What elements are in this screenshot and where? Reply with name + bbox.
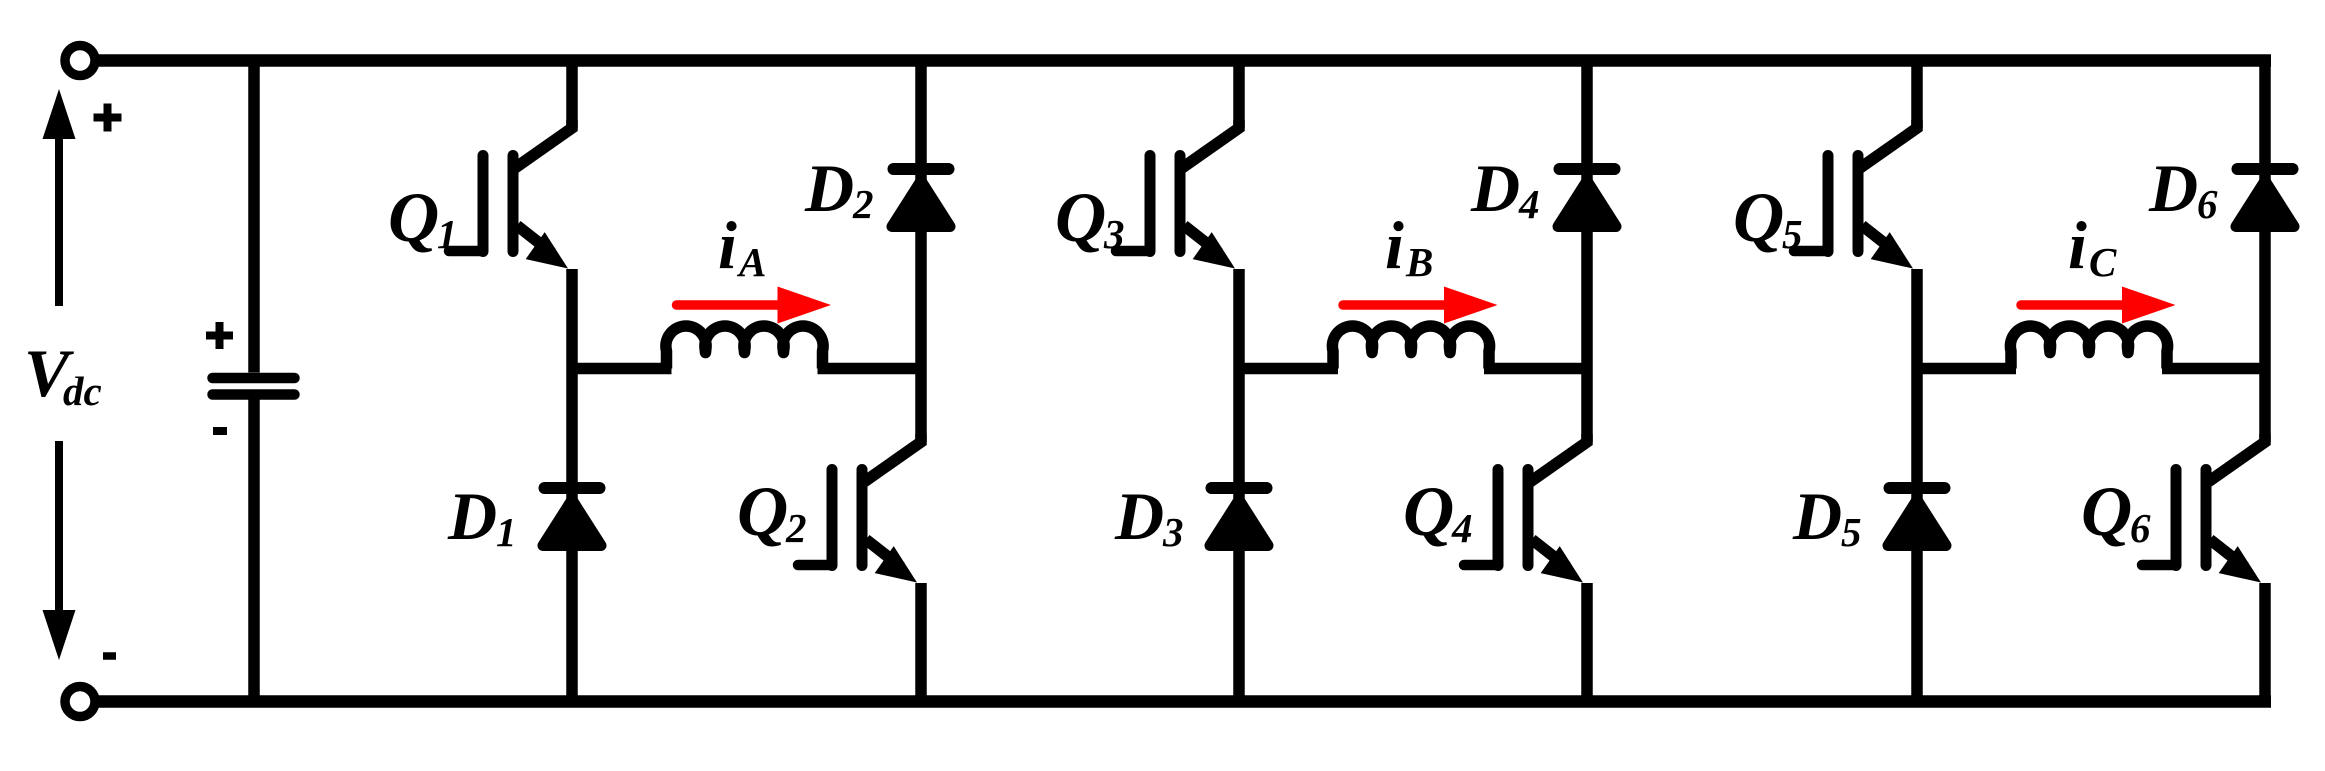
svg-text:D: D (2148, 150, 2198, 226)
svg-text:4: 4 (1451, 505, 1473, 551)
svg-text:D: D (447, 478, 497, 554)
svg-text:2: 2 (852, 181, 874, 227)
svg-text:D: D (1470, 150, 1520, 226)
svg-text:D: D (1792, 478, 1842, 554)
svg-text:6: 6 (2197, 181, 2218, 227)
svg-text:4: 4 (1518, 181, 1540, 227)
svg-text:i: i (1385, 207, 1404, 283)
svg-text:2: 2 (785, 505, 807, 551)
svg-text:Q: Q (2081, 473, 2132, 551)
svg-text:i: i (718, 207, 737, 283)
svg-text:5: 5 (1782, 211, 1803, 257)
svg-text:C: C (2089, 239, 2117, 285)
svg-text:D: D (1114, 478, 1164, 554)
svg-text:6: 6 (2130, 505, 2151, 551)
svg-text:i: i (2068, 207, 2087, 283)
svg-text:D: D (804, 150, 854, 226)
svg-text:Q: Q (737, 473, 788, 551)
svg-text:3: 3 (1162, 509, 1184, 555)
svg-text:A: A (736, 239, 766, 285)
svg-text:3: 3 (1103, 211, 1125, 257)
svg-text:1: 1 (437, 211, 458, 257)
svg-text:Q: Q (1403, 473, 1454, 551)
svg-text:Q: Q (388, 179, 439, 257)
svg-text:Q: Q (1055, 179, 1106, 257)
svg-text:dc: dc (63, 368, 102, 414)
svg-text:Q: Q (1733, 179, 1784, 257)
svg-text:1: 1 (496, 509, 517, 555)
svg-text:5: 5 (1841, 509, 1862, 555)
svg-text:B: B (1405, 239, 1433, 285)
